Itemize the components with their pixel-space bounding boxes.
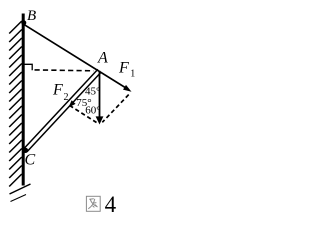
svg-text:2: 2 bbox=[64, 92, 69, 103]
node C (pin dot) bbox=[23, 148, 28, 153]
arrowhead G bbox=[96, 116, 104, 124]
dashed parallelogram side F1tip to Gtip bbox=[102, 95, 128, 123]
svg-text:45°: 45° bbox=[85, 85, 100, 97]
svg-text:C: C bbox=[25, 151, 36, 168]
dashed parallelogram side F2tip to Gtip bbox=[70, 105, 97, 122]
svg-text:F: F bbox=[52, 82, 63, 99]
arrowhead F1 bbox=[123, 85, 132, 92]
dashed horizontal construction line wall to A bbox=[35, 69, 94, 72]
node B (pin dot) bbox=[21, 20, 26, 25]
weight vector G (vertical line from A) bbox=[99, 71, 101, 118]
svg-text:B: B bbox=[27, 8, 36, 24]
right-angle marker at wall bbox=[24, 64, 32, 70]
rod C-A (double line) bbox=[24, 69, 101, 152]
svg-text:4: 4 bbox=[105, 192, 117, 217]
caption glyph "tu" (figure) drawn as strokes bbox=[86, 196, 100, 211]
svg-text:F: F bbox=[118, 60, 129, 77]
svg-text:60°: 60° bbox=[85, 104, 100, 116]
svg-text:A: A bbox=[97, 50, 108, 67]
wall hatching bbox=[9, 21, 30, 202]
wire rope B-A extended as force F1 line bbox=[25, 25, 129, 90]
svg-text:1: 1 bbox=[130, 69, 135, 80]
wall line bbox=[22, 14, 25, 186]
arrowhead F2 (on rod, toward C) bbox=[69, 100, 76, 107]
